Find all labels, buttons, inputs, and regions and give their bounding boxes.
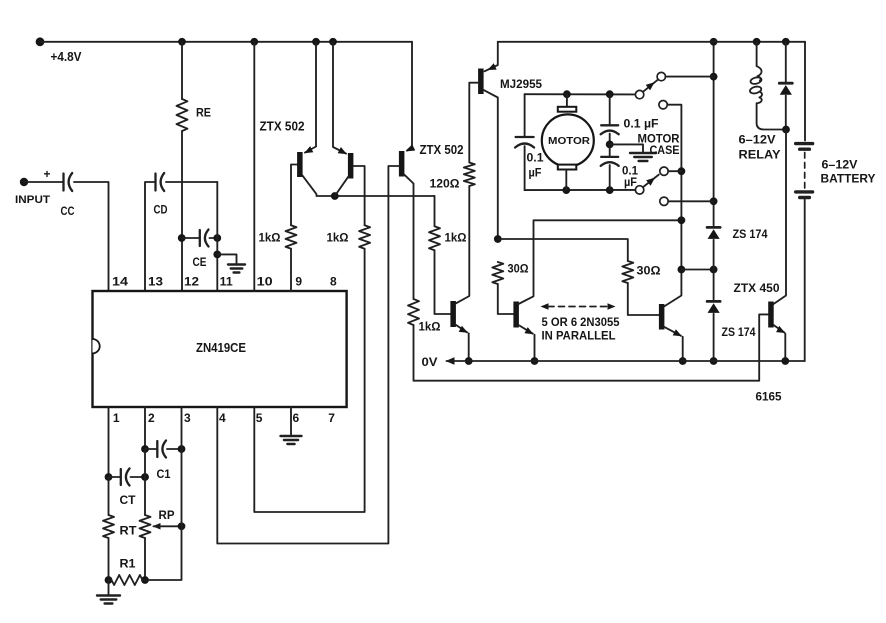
capacitor CT (109, 476, 121, 478)
junction pair collectors (331, 192, 339, 200)
wire pin 2 column to R1 (144, 538, 146, 580)
capacitor CE (182, 237, 200, 239)
Q2 emitter from rail (333, 42, 346, 154)
svg-text:RT: RT (120, 526, 137, 538)
switch contact D (660, 167, 668, 175)
wire RE to pin 12 (181, 131, 183, 291)
svg-text:1kΩ: 1kΩ (327, 231, 349, 245)
wire pin 13 to CD (145, 182, 156, 291)
junction relay/diode/collector (782, 126, 790, 134)
svg-text:C1: C1 (157, 469, 172, 481)
svg-text:CD: CD (154, 205, 168, 217)
MJ2955 collector down (483, 90, 498, 239)
ground MOTOR CASE (630, 152, 656, 154)
diode ZS 174 (lower) (707, 300, 720, 303)
wire lower zener to 0V (713, 314, 715, 361)
wire cap column upper (609, 94, 611, 124)
svg-text:11: 11 (220, 275, 233, 289)
svg-text:30Ω: 30Ω (637, 264, 661, 278)
Q5 emitter wire to 0V (534, 335, 536, 361)
junction C1 right (178, 445, 186, 453)
svg-text:CC: CC (61, 206, 75, 218)
wire relay bottom (757, 103, 786, 129)
Q5 collector (519, 220, 682, 304)
Q4 emitter arrow (459, 326, 468, 333)
transistor Q5 2N3055 bar (513, 302, 519, 328)
Q6 emitter arrow (673, 329, 682, 336)
MJ2955 emitter arrow (488, 63, 497, 70)
switch contact A (657, 72, 665, 80)
svg-text:MOTOR: MOTOR (638, 134, 681, 146)
svg-text:9: 9 (295, 275, 302, 289)
svg-text:1kΩ: 1kΩ (445, 231, 467, 245)
junction motor bottom terminal (562, 186, 570, 194)
switch pivot E (motor bottom) (635, 186, 643, 194)
junction rail/relay (753, 38, 761, 46)
wire CD to pin 11 column (166, 181, 217, 183)
wire caps midpoint (609, 134, 611, 157)
svg-text:BATTERY: BATTERY (821, 174, 876, 186)
wire contact A to battery column (666, 76, 714, 78)
Q3 emitter arrow (406, 144, 415, 151)
junction switch F feed (710, 197, 718, 205)
wire pair collectors to 1k (434, 196, 436, 226)
wire pin 9 column upper / Q1 base (291, 165, 297, 226)
switch contact F (660, 197, 668, 205)
transistor Q7 ZTX 450 bar (768, 302, 774, 328)
resistor 1k (pin 9) (286, 225, 297, 249)
resistor 1k (Q4 base) (429, 226, 440, 250)
junction Q4 emitter 0V (465, 357, 473, 365)
potentiometer RP (140, 515, 151, 538)
ground pin 6 (281, 435, 302, 437)
Q6 collector (664, 270, 681, 307)
svg-text:CASE: CASE (650, 145, 680, 157)
junction collectors node (678, 216, 686, 224)
wire clamp link (681, 269, 713, 271)
junction R1 left (105, 576, 113, 584)
wire RT to R1 node (108, 538, 110, 580)
wire pin 2 column upper (144, 407, 146, 449)
junction CE left (178, 234, 186, 242)
wire contact C down (667, 105, 681, 172)
capacitor CD (154, 174, 156, 191)
svg-text:INPUT: INPUT (15, 194, 50, 206)
wire 0V line (447, 360, 805, 362)
wire RP wiper (154, 525, 182, 527)
resistor 1k (Q3 collector) (408, 299, 419, 325)
wire 30 ohm to Q6 base (628, 283, 659, 315)
motor top lead (566, 94, 568, 107)
junction clamp link left (678, 266, 686, 274)
junction caps midpoint (606, 141, 614, 149)
wire link to lower zener (713, 270, 715, 300)
wire pin 2 column mid (144, 449, 146, 515)
ground near pin 11 (228, 263, 245, 265)
wire pin 1 column to RT (108, 477, 110, 515)
svg-text:0.1: 0.1 (622, 166, 639, 178)
svg-text:ZTX 450: ZTX 450 (734, 281, 780, 295)
wire battery positive rail (498, 41, 805, 43)
junction Q6 emitter 0V (679, 357, 687, 365)
junction switch A feed (710, 73, 718, 81)
Q5 emitter arrow (525, 327, 534, 334)
Q3 collector down (404, 175, 413, 299)
battery BT1 plate short upper (800, 147, 810, 150)
wire Q2 base column down to pin 5 loop (254, 249, 364, 512)
junction rail/damper diode (782, 38, 790, 46)
junction clamp link right (710, 266, 718, 274)
junction Q5 emitter 0V (531, 357, 539, 365)
wire damper diode top (785, 42, 787, 82)
resistor 30 ohm (right) (622, 261, 633, 283)
svg-text:0V: 0V (422, 357, 438, 369)
wire zener to link (713, 240, 715, 270)
svg-text:4: 4 (219, 411, 226, 425)
wire motor box top (525, 93, 636, 95)
transistor Q1 ZTX 502 bar (297, 152, 303, 177)
motor M1 body (542, 114, 594, 166)
junction rail/pin10 column (250, 38, 258, 46)
switch arm E-D (643, 175, 659, 188)
junction rail feed (710, 38, 718, 46)
Q2 collector to junction (335, 177, 348, 196)
Q7 emitter (774, 325, 785, 333)
wire pin 11 column (216, 182, 218, 291)
junction wiper/pin3 column (178, 522, 186, 530)
wire motor box left upper (524, 94, 526, 137)
motor bottom brush (558, 165, 577, 170)
resistor RT (103, 515, 114, 538)
RP wiper arrow (153, 523, 161, 530)
Q7 emitter wire to 0V (784, 334, 786, 362)
resistor 120 ohm (464, 163, 475, 187)
junction pin11 ground tap (213, 251, 221, 259)
wire CT right (131, 476, 146, 478)
svg-text:1kΩ: 1kΩ (259, 231, 281, 245)
MJ2955 base wire to 120 ohm column (469, 83, 478, 163)
Q1 emitter arrow (304, 146, 313, 153)
Q6 emitter wire to 0V (682, 337, 684, 361)
svg-text:12: 12 (184, 275, 199, 289)
junction Q7 emitter 0V (781, 357, 789, 365)
capacitor 0.1uF (upper right) (601, 124, 618, 126)
junction rail/RE (178, 38, 186, 46)
svg-text:RELAY: RELAY (739, 150, 781, 162)
svg-text:0.1: 0.1 (527, 153, 545, 165)
switch arm arrow B-A (646, 82, 655, 90)
capacitor 0.1uF (motor left) (516, 136, 534, 138)
junction motor top terminal (563, 90, 571, 98)
resistor 1k (Q2 base) (359, 225, 370, 249)
svg-text:6: 6 (293, 411, 300, 425)
motor top brush (558, 107, 577, 112)
wire contact F to battery column (668, 200, 713, 202)
svg-text:1kΩ: 1kΩ (419, 320, 441, 334)
wire CE right (210, 237, 218, 239)
capacitor CC (62, 174, 64, 191)
capacitor 0.1uF (lower right) (601, 156, 618, 158)
Q6 emitter (664, 327, 681, 336)
transistor Q4 2N3055 bar (450, 301, 456, 327)
battery BT1 plate long upper (796, 142, 813, 145)
resistor R1 (112, 575, 143, 585)
svg-text:R1: R1 (120, 559, 137, 571)
wire contact D (668, 170, 681, 172)
svg-text:30Ω: 30Ω (508, 262, 529, 276)
Q1 emitter from rail (305, 42, 316, 153)
svg-text:120Ω: 120Ω (430, 177, 460, 191)
svg-text:8: 8 (330, 275, 337, 289)
svg-text:CE: CE (193, 257, 207, 269)
svg-text:5: 5 (256, 411, 263, 425)
svg-text:MJ2955: MJ2955 (500, 77, 542, 91)
Q2 base wire (353, 166, 365, 225)
wire motor box bottom (525, 189, 636, 191)
Q3 emitter from rail corner (407, 42, 412, 151)
IC notch (93, 339, 100, 353)
wire collector node to 30 ohm (right) (498, 239, 628, 261)
wire CC to pin 14 (74, 182, 109, 291)
junction CE right (213, 234, 221, 242)
junction contacts C-D (678, 167, 686, 175)
diode D1 relay damper (779, 82, 792, 85)
wire pin 9 column lower (290, 249, 292, 291)
wire Q3 collector to ZTX450 base loop (414, 314, 769, 380)
battery BT1 plate long lower (796, 190, 813, 193)
wire pin 6 to ground (290, 407, 292, 435)
junction CT right (141, 473, 149, 481)
svg-text:RP: RP (159, 510, 175, 522)
junction rail/Q1 emitter (312, 38, 320, 46)
junction zener 0V (710, 357, 718, 365)
junction R1 right (141, 576, 149, 584)
resistor RE (177, 99, 188, 131)
wire relay top (756, 42, 758, 66)
wire to ground (217, 254, 236, 263)
diode ZS 174 (upper) (707, 226, 720, 229)
svg-text:3: 3 (184, 411, 191, 425)
svg-text:ZN419CE: ZN419CE (196, 340, 246, 355)
svg-text:ZS 174: ZS 174 (733, 229, 769, 241)
transistor Q6 2N3055 bar (659, 304, 665, 330)
wire lower cap to motor bottom (609, 165, 611, 190)
Q3 base wire to pin 4 loop (217, 166, 399, 544)
wire +4.8V rail (40, 41, 412, 43)
op-amp U1 ZN419CE IC body (93, 291, 347, 407)
switch contact C (659, 101, 667, 109)
junction C1 left (141, 445, 149, 453)
svg-text:ZTX 502: ZTX 502 (420, 143, 464, 157)
svg-text:2: 2 (148, 411, 155, 425)
svg-text:6–12V: 6–12V (822, 160, 858, 172)
0V arrowhead (446, 357, 455, 365)
svg-text:+: + (44, 167, 51, 181)
Q1 collector (302, 175, 434, 196)
node +4.8V supply terminal (36, 37, 45, 46)
battery BT1 plate short lower (800, 196, 810, 199)
dashed arrow between parallel transistors (541, 303, 549, 310)
wire battery feed column (713, 42, 715, 226)
svg-text:5 OR 6 2N3055: 5 OR 6 2N3055 (542, 317, 621, 329)
svg-text:0.1 µF: 0.1 µF (624, 119, 659, 131)
junction motor top cap node (606, 90, 614, 98)
svg-text:µF: µF (624, 177, 637, 189)
Q5 emitter (519, 325, 533, 334)
wire damper diode bottom (785, 96, 787, 130)
capacitor C1 (145, 448, 157, 450)
relay coil L1 (757, 66, 762, 76)
Q4 emitter (456, 325, 468, 333)
transistor Q3 ZTX 502 bar (399, 151, 405, 177)
wire 1k to Q4 base (435, 250, 451, 314)
svg-text:MOTOR: MOTOR (548, 136, 591, 147)
svg-text:µF: µF (529, 168, 542, 180)
svg-text:ZS 174: ZS 174 (722, 327, 757, 339)
wire battery bottom to 0V (804, 200, 806, 362)
switch arm arrow E-D (646, 178, 655, 186)
junction MJ2955 collector / 30 ohm (494, 235, 502, 243)
battery dashed middle (804, 153, 806, 189)
svg-text:13: 13 (148, 275, 163, 289)
junction motor bottom cap node (606, 186, 614, 194)
svg-text:RE: RE (196, 108, 211, 120)
transistor MJ2955 bar (478, 69, 484, 95)
switch pivot B (motor top) (635, 90, 643, 98)
svg-text:ZTX 502: ZTX 502 (260, 120, 305, 134)
wire motor case tap (610, 144, 643, 152)
wire pin 3 column (145, 407, 182, 580)
wire 120 ohm to NPN1 collector (456, 186, 469, 303)
wire pin 10 to +4.8V rail (253, 42, 255, 291)
wire motor box left lower (524, 146, 526, 190)
svg-text:6–12V: 6–12V (739, 135, 776, 147)
wire battery top (804, 42, 806, 141)
wire INPUT to CC (24, 181, 64, 183)
wire C1 right (167, 448, 182, 450)
svg-text:CT: CT (120, 495, 136, 507)
svg-text:14: 14 (112, 275, 128, 289)
Q4 emitter wire to 0V (468, 333, 470, 361)
svg-text:IN PARALLEL: IN PARALLEL (542, 331, 616, 343)
Q2 emitter arrow (338, 147, 347, 154)
wire ZTX450 collector (774, 130, 787, 305)
junction CT left (105, 473, 113, 481)
svg-text:7: 7 (328, 411, 335, 425)
Q7 emitter arrow (776, 326, 785, 333)
resistor 30 ohm (left) (492, 262, 503, 284)
transistor Q2 ZTX 502 bar (348, 153, 354, 179)
svg-text:6165: 6165 (756, 392, 783, 404)
wire pin 1 column upper (108, 407, 110, 477)
switch arm B-A (643, 79, 658, 92)
ground below R1 (108, 580, 110, 595)
wire 30 ohm to Q5 base (498, 284, 514, 314)
MJ2955 emitter from rail corner (485, 42, 498, 72)
svg-text:10: 10 (257, 275, 273, 289)
junction rail/Q2 emitter (329, 38, 337, 46)
svg-text:1: 1 (113, 411, 120, 425)
wire rail to RE (181, 42, 183, 99)
motor bottom lead (565, 170, 567, 191)
node INPUT terminal (20, 178, 28, 186)
wire switch common column (680, 171, 682, 269)
svg-text:+4.8V: +4.8V (51, 50, 83, 64)
